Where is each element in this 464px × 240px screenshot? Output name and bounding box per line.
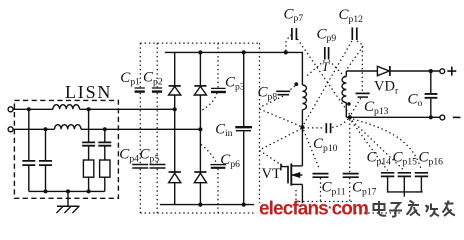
LISN box [14,100,118,198]
bridge branch 2 [199,52,201,204]
bottom connector dotted [295,190,353,202]
Cp9 leads [305,61,345,78]
Cp8 leads [260,85,302,166]
wire source [301,184,303,204]
Cp11 column [304,130,321,202]
chassis top dotted line [140,42,259,44]
wire output top [346,70,440,72]
capacitors Cp14 Cp15 Cp16 comb [381,173,428,197]
LISN cap+resistor branch 4 [98,129,111,191]
Cp12 leads [303,41,364,126]
capacitor Cp6 column [201,145,218,214]
LISN capacitor branch 2 [39,129,52,191]
wire output bottom [346,116,440,118]
diode VDr [377,66,390,76]
terminal output + [440,69,445,74]
capacitor Cp3 column [202,43,219,110]
fan to Cp15 [349,118,404,171]
capacitor Cp5 [150,165,166,169]
capacitor Cin [235,52,252,204]
watermark elecfans.com [254,199,368,221]
LISN cap+resistor branch 3 [82,109,95,191]
Cp17 column [349,119,351,201]
wire L1 (top input line) [13,108,175,110]
minus sign [453,116,461,118]
transformer secondary winding [342,77,346,103]
Cp13 column [351,47,363,116]
svg-text:elecfans·com: elecfans·com [259,199,368,220]
watermark chinese characters [374,201,456,217]
wire DC+ top bus [165,52,303,85]
plus sign [447,67,456,76]
capacitor Cp6 [210,165,226,168]
capacitor Cp2 [152,88,162,92]
wire DC- bottom bus [160,204,302,206]
parasitic dotted network [140,35,421,214]
svg-text:VT: VT [262,166,281,182]
capacitor Cp12 [352,28,357,41]
LISN bottom wire [29,190,105,192]
capacitor Cp1 [135,88,145,92]
Cp10 leads [303,119,348,128]
capacitor Cp4 Cp5 columns lower [140,169,157,213]
wire L2 (bottom input line) [13,128,200,130]
transformer primary winding [302,85,306,110]
inductor L1 [53,105,79,110]
capacitor Cp7 [292,28,297,40]
inductor L2 [55,125,81,130]
diode bottom-right [194,172,206,183]
MOSFET VT [281,163,303,185]
capacitor Cp13 [356,93,370,97]
ground [57,191,80,213]
capacitor Cp8 [276,91,290,94]
capacitor Cp11 [313,174,329,178]
bridge branch 1 [174,52,176,204]
capacitor Co [425,71,438,117]
diode top-left [169,86,181,95]
svg-text:LISN: LISN [65,82,112,102]
terminal input 2 [8,127,13,132]
capacitor Cp2 column [156,43,158,164]
chassis riser dotted [259,43,261,211]
wire primary to drain [301,110,303,166]
fan to Cp16 [349,118,422,171]
capacitor Cp1 column [139,43,141,164]
parasitic capacitor plates (solid) [132,28,370,178]
chassis bottom dotted line [140,212,400,214]
wire secondary vertical [345,71,347,117]
capacitor Cp17 [343,174,359,178]
fan to Cp14 [349,118,388,171]
terminal output - [440,115,445,120]
terminal input 1 [8,107,13,112]
LISN capacitor branch 1 [22,109,35,191]
capacitor Cp3 [211,88,226,92]
diode bottom-left [169,172,181,183]
Cp7 leads [286,35,350,115]
diode top-right [194,86,206,95]
capacitor Cp9 [325,47,329,60]
capacitor Cp10 [326,123,330,133]
svg-text:T: T [322,59,330,74]
capacitor Cp4 [132,165,148,169]
